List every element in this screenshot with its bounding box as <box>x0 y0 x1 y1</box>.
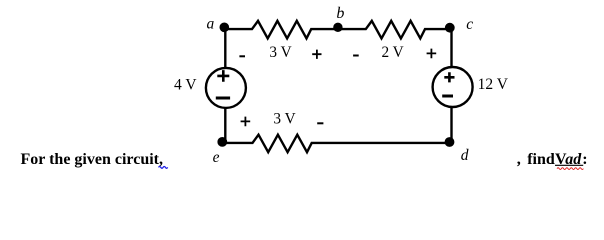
svg-text:c: c <box>466 16 473 33</box>
svg-text:d: d <box>461 147 469 164</box>
node e junction dot <box>217 137 227 147</box>
red squiggle under Vad <box>557 168 583 170</box>
polarity plus right of 3 V (top) <box>312 50 321 59</box>
svg-text:For the given circuit,: For the given circuit, <box>21 151 164 168</box>
svg-text:4 V: 4 V <box>174 76 197 93</box>
wire: node a to resistor R1 with zigzag, to node b <box>225 21 337 39</box>
plus sign inside V1 <box>217 70 229 82</box>
underline under Vad <box>555 164 583 166</box>
wire: node a down to source V1 <box>224 29 226 68</box>
node b junction dot <box>333 23 342 32</box>
minus sign inside V2 <box>442 95 453 98</box>
node a junction dot <box>220 23 230 33</box>
svg-text:,: , <box>517 149 521 168</box>
polarity plus right of 2 V <box>427 49 437 59</box>
svg-text:12 V: 12 V <box>478 76 509 93</box>
node c junction dot <box>445 23 455 33</box>
polarity minus left of 2 V <box>353 55 359 57</box>
wire: node c down to source V2 <box>450 29 452 67</box>
blue squiggle under comma <box>159 167 168 169</box>
voltage source V1 circle (4 V) <box>206 68 246 108</box>
svg-text:3 V: 3 V <box>273 110 295 127</box>
wire: source V2 down to node d <box>450 107 452 143</box>
svg-text:a: a <box>207 16 215 33</box>
svg-text:find: find <box>527 151 555 168</box>
wire: node b to resistor R2 with zigzag, to node c <box>338 21 452 39</box>
node d junction dot <box>445 137 455 147</box>
svg-text:3 V: 3 V <box>269 44 291 61</box>
svg-text:b: b <box>336 5 344 22</box>
wire: source V1 down to node e <box>224 108 226 143</box>
polarity minus left of 3 V (top) <box>239 55 245 57</box>
plus sign inside V2 <box>444 72 454 82</box>
polarity plus left of 3 V (bottom) <box>241 117 251 127</box>
wire: node e to resistor R3 with zigzag, to node d <box>222 135 451 153</box>
svg-text:2 V: 2 V <box>381 44 403 61</box>
svg-text:e: e <box>213 149 220 166</box>
voltage source V2 circle (12 V) <box>433 67 473 107</box>
minus sign inside V1 <box>216 97 230 100</box>
polarity minus right of 3 V (bottom) <box>317 122 323 124</box>
